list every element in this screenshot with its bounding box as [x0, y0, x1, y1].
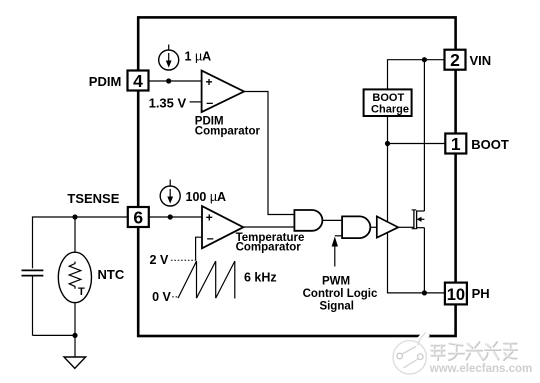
- pin 4 box: [128, 71, 149, 91]
- transistor Q1 body arrow: [421, 218, 425, 220]
- wire buffer output to gate: [398, 226, 414, 228]
- thermistor R1 zigzag: [69, 262, 81, 289]
- transistor Q1 channel bar: [416, 211, 418, 230]
- wire VIN to boot charge: [388, 60, 445, 90]
- node junction at 1uA source: [166, 78, 171, 83]
- wire AND1 output to AND2: [322, 219, 342, 221]
- svg-text:Charge: Charge: [371, 103, 409, 115]
- pin 1 box: [445, 134, 466, 154]
- svg-text:10: 10: [447, 286, 465, 304]
- wire TSENSE left branch to capacitor: [33, 217, 128, 268]
- svg-text:0 V: 0 V: [152, 290, 171, 304]
- buffer U3 gate driver: [377, 216, 398, 237]
- svg-text:–: –: [206, 96, 213, 110]
- wire AND2 output to buffer: [370, 226, 376, 228]
- wire capacitor to bottom rail: [32, 276, 34, 336]
- node junction at 100uA source: [168, 214, 173, 219]
- op-amp U1 PDIM comparator: [202, 71, 244, 113]
- svg-text:2: 2: [450, 50, 460, 70]
- svg-text:1: 1: [451, 134, 461, 154]
- wire BOOT pin to rail: [388, 143, 446, 145]
- wire to ground: [74, 335, 76, 357]
- node junction bottom rail: [72, 333, 77, 338]
- capacitor C1 plates: [22, 269, 44, 271]
- AND gate A2: [342, 216, 370, 238]
- wire source down to PH: [423, 228, 425, 293]
- wire boot charge bottom rail down to PH: [388, 116, 445, 293]
- svg-text:TSENSE: TSENSE: [67, 191, 119, 206]
- PWM input arrow: [334, 246, 336, 267]
- block BOOT Charge: [364, 89, 412, 116]
- current source I1 1uA top stub: [168, 45, 170, 51]
- wire PDIM pin4 to comparator + input: [149, 80, 203, 82]
- svg-text:NTC: NTC: [98, 267, 125, 282]
- current source I1 arrow: [168, 53, 170, 61]
- current source I2 arrow: [169, 189, 171, 197]
- svg-text:www.elecfans.com: www.elecfans.com: [429, 363, 532, 375]
- svg-text:100 µA: 100 µA: [186, 190, 227, 204]
- svg-text:PWM: PWM: [322, 276, 350, 288]
- AND gate A1: [294, 210, 322, 231]
- pin 10 box: [445, 283, 467, 305]
- wire NTC top lead: [74, 217, 76, 252]
- wire PDIM comparator output to AND1: [244, 92, 294, 215]
- svg-text:6: 6: [133, 207, 143, 227]
- svg-text:T: T: [78, 286, 85, 298]
- wire TSENSE pin6 to comparator + input: [149, 216, 202, 218]
- sawtooth waveform: [178, 261, 235, 298]
- current source I2 100uA top stub: [169, 180, 171, 187]
- thermistor R1 NTC ellipse: [58, 252, 91, 302]
- watermark logo: [393, 330, 430, 374]
- svg-text:–: –: [207, 232, 214, 246]
- transistor Q1 drain stub: [417, 210, 425, 212]
- op-amp U2 temperature comparator: [202, 206, 243, 248]
- svg-text:Comparator: Comparator: [236, 241, 302, 253]
- transistor Q1 NMOS gate bar: [413, 210, 415, 229]
- svg-text:Control Logic: Control Logic: [303, 288, 378, 300]
- wire dotted 0V stub: [172, 296, 179, 298]
- wire bottom rail: [33, 334, 76, 336]
- svg-text:PH: PH: [472, 286, 490, 301]
- node junction BOOT rail: [385, 141, 390, 146]
- pin 2 box: [445, 50, 466, 70]
- wire temp comparator output to AND1 lower input: [243, 226, 294, 228]
- node junction source/PH: [422, 290, 427, 295]
- wire NTC bottom lead: [74, 303, 76, 336]
- svg-text:BOOT: BOOT: [372, 92, 404, 104]
- ground: [64, 357, 86, 368]
- watermark chinese text: [432, 342, 518, 360]
- svg-text:VIN: VIN: [470, 53, 492, 68]
- current source I2 100uA circle: [160, 186, 180, 206]
- transistor Q1 source stub: [417, 227, 425, 229]
- svg-text:+: +: [206, 75, 213, 89]
- wire dotted 2V level: [171, 259, 196, 261]
- IC boundary box: [138, 17, 455, 336]
- pin 6 box: [128, 207, 149, 227]
- svg-text:4: 4: [133, 71, 143, 91]
- node junction VIN/drain: [422, 57, 427, 62]
- wire PWM stub to AND2 lower input: [335, 235, 342, 237]
- svg-text:6 kHz: 6 kHz: [244, 270, 277, 284]
- svg-text:PDIM: PDIM: [89, 74, 122, 89]
- svg-text:BOOT: BOOT: [471, 137, 509, 152]
- svg-text:1.35 V: 1.35 V: [149, 96, 187, 111]
- wire - input to sawtooth: [196, 237, 203, 260]
- svg-text:+: +: [206, 211, 213, 225]
- wire drain to VIN: [423, 60, 425, 211]
- node junction TSENSE/NTC: [72, 214, 77, 219]
- svg-text:2 V: 2 V: [150, 253, 169, 267]
- svg-text:Signal: Signal: [319, 301, 354, 313]
- svg-text:Comparator: Comparator: [195, 126, 261, 138]
- svg-text:1 µA: 1 µA: [185, 49, 212, 63]
- current source I1 1uA circle: [159, 50, 179, 70]
- wire 1.35V reference to - input: [190, 101, 202, 103]
